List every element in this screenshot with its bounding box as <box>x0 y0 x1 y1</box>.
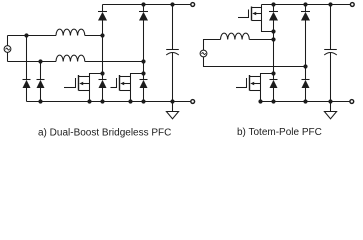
node L3 leg3 <box>271 37 275 41</box>
node Q2 source rail <box>128 99 132 103</box>
wire leg3 rail to D7 <box>273 5 275 12</box>
wire V2 bottom lead <box>204 57 306 67</box>
node top rail b leg3 <box>271 2 275 6</box>
wire L1 line right <box>85 35 103 37</box>
wire leg2 D2 to drain node <box>143 21 145 74</box>
ground a <box>166 112 178 119</box>
node top rail a leg2 <box>141 2 145 6</box>
node V2 return leg4 <box>303 64 307 68</box>
wire leg4 return to D10 <box>305 67 307 80</box>
diode D7 body <box>269 12 278 21</box>
wire leg2 drain node to D4 <box>143 74 145 80</box>
node bottom rail b leg4 <box>303 99 307 103</box>
wire V1 bottom lead <box>7 52 9 61</box>
inductor L1 <box>56 29 85 35</box>
wire D5 cathode up to L1 <box>26 36 28 80</box>
wire bottom rail a <box>27 101 192 103</box>
diode D9 <box>301 12 310 21</box>
node top rail a C1 <box>170 2 174 6</box>
svg-text:a) Dual-Boost Bridgeless PFC: a) Dual-Boost Bridgeless PFC <box>38 128 171 139</box>
diode D4 body <box>140 80 148 89</box>
wire V1 top lead <box>7 36 9 46</box>
terminal a out- <box>191 100 195 104</box>
node C1 bottom rail <box>170 99 174 103</box>
wire leg4 D10 to bottom rail <box>305 88 307 102</box>
node bottom rail a D6 <box>38 99 42 103</box>
node Q1 source rail <box>87 99 91 103</box>
wire leg2 D4 anode to bottom rail <box>143 88 145 102</box>
capacitor C2 <box>324 50 337 56</box>
wire leg4 rail to D9 <box>305 5 307 12</box>
node L2 to D6 leg <box>38 59 42 63</box>
node Q3 source leg3 <box>271 29 275 33</box>
inductor L2 <box>56 55 85 61</box>
diode D1 <box>98 12 107 21</box>
node bottom rail a leg1 <box>100 99 104 103</box>
node leg2 drain <box>141 71 145 75</box>
ac source V2 <box>200 50 207 57</box>
wire bottom rail b <box>261 101 351 103</box>
wire D5 anode to bottom rail <box>26 88 28 102</box>
wire leg1 D1 to drain node <box>102 21 104 74</box>
transistor Q4 <box>236 74 274 102</box>
wire leg1 rail to D1 <box>102 5 104 12</box>
wire ground lead b <box>330 102 332 112</box>
node L1 to leg1 <box>100 33 104 37</box>
node C2 bottom rail <box>328 99 332 103</box>
wire C1 top lead <box>172 5 174 50</box>
diode D8 body <box>270 80 278 89</box>
wire leg3 drain to D8 <box>273 74 275 80</box>
wire L2 line right <box>85 61 144 63</box>
wire L3 to leg3 <box>249 39 273 41</box>
wire top rail a <box>103 4 192 6</box>
diode D5 <box>23 80 31 89</box>
capacitor C1 <box>166 50 179 56</box>
wire D6 anode to bottom rail <box>40 88 42 102</box>
wire C2 top lead <box>330 5 332 50</box>
node bottom rail b leg3 <box>271 99 275 103</box>
diode D3 body <box>99 80 107 89</box>
diode D10 <box>302 80 310 89</box>
node Q4 source rail <box>258 99 262 103</box>
wire ground lead a <box>172 102 174 112</box>
node top rail b C2 <box>328 2 332 6</box>
node L2 to leg2 <box>141 59 145 63</box>
node L1 to D5 leg <box>24 33 28 37</box>
wire leg3 D8 to bottom rail <box>273 88 275 102</box>
terminal b out+ <box>350 3 354 7</box>
transistor Q2 <box>111 74 144 102</box>
wire leg2 rail to D2 <box>143 5 145 12</box>
terminal a out+ <box>191 3 195 7</box>
transistor Q1 <box>64 74 103 102</box>
node bottom rail a leg2 <box>141 99 145 103</box>
wire C2 bottom lead <box>330 53 332 102</box>
wire D6 cathode up to L2 <box>40 62 42 80</box>
ac source V1 <box>4 46 11 53</box>
node leg1 drain <box>100 71 104 75</box>
diode D6 <box>37 80 45 89</box>
wire leg1 D3 anode to bottom rail <box>102 88 104 102</box>
node top rail b leg4 <box>303 2 307 6</box>
wire leg1 drain node to D3 <box>102 74 104 80</box>
wire L2 line left <box>8 61 57 63</box>
transistor Q3 <box>238 5 274 32</box>
wire leg4 D9 to return node <box>305 21 307 67</box>
node leg3 drain <box>271 71 275 75</box>
wire L1 line left <box>8 35 57 37</box>
diode D2 <box>139 12 148 21</box>
wire C1 bottom lead <box>172 53 174 102</box>
terminal b out- <box>350 100 354 104</box>
wire leg3 D7 to nodes <box>273 21 275 74</box>
ground b <box>324 112 336 119</box>
svg-text:b) Totem-Pole PFC: b) Totem-Pole PFC <box>237 127 322 138</box>
inductor L3 <box>221 33 250 39</box>
wire V2 top lead <box>204 40 221 51</box>
wire top rail b <box>262 4 351 6</box>
